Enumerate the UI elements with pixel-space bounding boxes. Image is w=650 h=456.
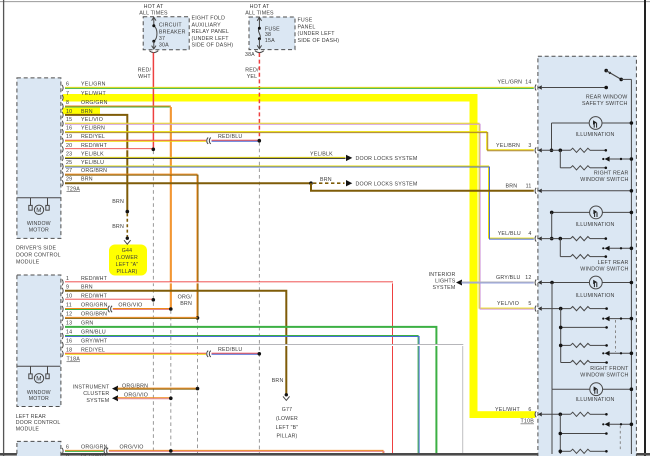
svg-text:9: 9 xyxy=(66,284,69,290)
left rear window switch xyxy=(542,237,633,259)
driver's side door control module box xyxy=(17,78,61,239)
svg-text:GRY/WHT: GRY/WHT xyxy=(81,339,108,345)
wire pin16 YEL/BRN to switch pin3 xyxy=(65,132,534,151)
svg-text:DOOR CONTROL: DOOR CONTROL xyxy=(16,252,61,258)
text: rear window safety switch xyxy=(582,95,627,108)
svg-text:BRN: BRN xyxy=(180,301,192,307)
text: RED/WHT feed label xyxy=(138,68,152,80)
svg-text:(UNDER LEFT: (UNDER LEFT xyxy=(298,31,336,37)
svg-text:RED/BLU: RED/BLU xyxy=(218,347,242,353)
text: instrument cluster system xyxy=(73,384,110,403)
svg-text:30A: 30A xyxy=(159,43,169,49)
svg-text:LEFT "B": LEFT "B" xyxy=(276,425,299,431)
text: fuse panel xyxy=(298,18,340,44)
lower module wire pin14 GRN/BLU loop down xyxy=(65,336,419,454)
window switch assembly box xyxy=(538,56,637,456)
illumination lamp 3 xyxy=(589,276,602,289)
BRN wire junction dots on G44 drop xyxy=(126,210,130,214)
svg-text:YEL/VIO: YEL/VIO xyxy=(497,301,519,307)
svg-text:YEL/VIO: YEL/VIO xyxy=(81,117,103,123)
svg-text:10: 10 xyxy=(66,109,72,115)
wire ORG/BRN to instrument cluster system xyxy=(112,386,199,392)
text: T18A connector xyxy=(67,357,81,363)
svg-text:BRN: BRN xyxy=(112,224,124,230)
svg-text:ORG/VIO: ORG/VIO xyxy=(120,444,144,450)
svg-text:YEL/BLK: YEL/BLK xyxy=(310,152,333,158)
splice third module pin6 xyxy=(104,448,108,454)
svg-text:5: 5 xyxy=(528,301,531,307)
rear window safety switch xyxy=(542,69,632,90)
wire GRY/BLU to interior lights system xyxy=(456,280,534,286)
svg-text:BRN: BRN xyxy=(272,378,284,384)
svg-text:11: 11 xyxy=(66,303,72,309)
wire pin20 RED/WHT to bus xyxy=(65,148,155,152)
svg-text:DRIVER'S SIDE: DRIVER'S SIDE xyxy=(16,246,57,252)
text: window motor (upper) xyxy=(27,221,51,233)
text: hot at all times (fuse) xyxy=(245,4,274,17)
svg-text:ILLUMINATION: ILLUMINATION xyxy=(575,397,614,403)
text: interior lights system xyxy=(429,272,456,291)
svg-text:RED/YEL: RED/YEL xyxy=(81,134,105,140)
switch pin 12 illumination feed row xyxy=(542,281,633,285)
text: BRN label G77 xyxy=(272,378,284,384)
svg-text:38A: 38A xyxy=(245,52,255,58)
svg-text:GRY/BLU: GRY/BLU xyxy=(496,275,521,281)
svg-text:INTERIOR: INTERIOR xyxy=(429,272,456,278)
text: RED/BLU label (lower) xyxy=(218,347,242,353)
text: RED/YEL feed label xyxy=(245,68,259,80)
svg-text:20: 20 xyxy=(66,143,72,149)
svg-text:SYSTEM: SYSTEM xyxy=(433,285,456,291)
svg-text:EIGHT FOLD: EIGHT FOLD xyxy=(192,16,226,22)
wire RED/YEL feed from fuse (dashed) xyxy=(258,53,260,140)
wire ORG/VIO to instrument cluster system xyxy=(112,395,173,401)
svg-text:G77: G77 xyxy=(282,407,292,413)
text: ORG/VIO label (third module) xyxy=(120,444,144,450)
gray dashed bus at x=153 (RED/WHT run) xyxy=(152,151,154,454)
third module wire pin6 ORG/GRN to splice xyxy=(65,450,103,451)
svg-text:YEL/BLK: YEL/BLK xyxy=(81,151,104,157)
svg-text:RIGHT FRONT: RIGHT FRONT xyxy=(590,366,629,372)
svg-text:ORG/GRN: ORG/GRN xyxy=(81,100,108,106)
svg-text:MODULE: MODULE xyxy=(16,259,40,265)
wire RED/BLU to RED/YEL bus (lower) xyxy=(212,352,262,356)
left front window switch (pin 6, clipped at bottom) xyxy=(542,412,633,454)
window motor (driver's side) xyxy=(17,198,60,215)
svg-text:MODULE: MODULE xyxy=(16,426,40,432)
text: T10B connector xyxy=(521,419,535,425)
svg-text:RED/: RED/ xyxy=(245,68,259,74)
ground G44 xyxy=(124,237,131,245)
svg-text:ILLUMINATION: ILLUMINATION xyxy=(575,293,614,299)
svg-text:WINDOW SWITCH: WINDOW SWITCH xyxy=(580,177,628,183)
svg-text:GRN/BLU: GRN/BLU xyxy=(81,330,106,336)
svg-text:FUSE: FUSE xyxy=(298,18,313,24)
text: illumination 2 xyxy=(575,222,614,228)
svg-text:12: 12 xyxy=(66,311,72,317)
left rear door control module box xyxy=(17,275,61,407)
svg-text:BRN: BRN xyxy=(112,199,124,205)
svg-text:MOTOR: MOTOR xyxy=(29,396,49,402)
svg-text:8: 8 xyxy=(66,100,69,106)
wire ORG/VIO bottom run xyxy=(109,449,384,453)
text: fuse 38 15A xyxy=(265,26,280,43)
circuit breaker 37 symbol xyxy=(149,17,158,52)
svg-text:ORG/BRN: ORG/BRN xyxy=(81,311,107,317)
svg-text:LIGHTS: LIGHTS xyxy=(435,279,456,285)
text: switch pin 11 label xyxy=(506,183,532,189)
svg-text:SAFETY SWITCH: SAFETY SWITCH xyxy=(582,101,627,107)
svg-text:ORG/VIO: ORG/VIO xyxy=(124,393,148,399)
svg-text:ILLUMINATION: ILLUMINATION xyxy=(575,132,614,138)
svg-text:SIDE OF DASH): SIDE OF DASH) xyxy=(192,43,234,49)
svg-text:BRN: BRN xyxy=(81,284,93,290)
svg-text:YEL/BRN: YEL/BRN xyxy=(81,126,105,132)
wire pin29 BRN to switch pin11 and door locks xyxy=(65,180,534,191)
highlight: G44 label marker xyxy=(109,245,147,276)
gray dashed bus at x=259 (RED/YEL run) xyxy=(258,142,260,453)
svg-text:M: M xyxy=(36,207,41,214)
svg-text:INSTRUMENT: INSTRUMENT xyxy=(73,384,110,390)
text: BRN + door locks system xyxy=(320,177,417,187)
wire RED/WHT feed from circuit breaker xyxy=(152,53,154,149)
svg-text:HOT AT: HOT AT xyxy=(144,4,164,10)
svg-text:LEFT "A": LEFT "A" xyxy=(116,262,139,268)
highlight: YEL/WHT circuit marker xyxy=(63,94,535,418)
svg-text:6: 6 xyxy=(66,81,69,87)
text: ORG/VIO instrument label xyxy=(124,393,148,399)
svg-text:3: 3 xyxy=(528,143,531,149)
svg-text:1: 1 xyxy=(66,276,69,282)
svg-text:ALL TIMES: ALL TIMES xyxy=(245,10,274,16)
splice pin18 xyxy=(207,351,211,357)
svg-text:DOOR CONTROL: DOOR CONTROL xyxy=(16,420,61,426)
svg-text:CIRCUIT: CIRCUIT xyxy=(159,23,182,29)
svg-text:6: 6 xyxy=(66,444,69,450)
fuse 38 symbol xyxy=(255,17,264,52)
splice pin11 xyxy=(108,306,112,312)
svg-text:27: 27 xyxy=(66,168,72,174)
svg-text:ORG/BRN: ORG/BRN xyxy=(81,168,107,174)
svg-text:REAR WINDOW: REAR WINDOW xyxy=(586,95,628,101)
svg-text:ALL TIMES: ALL TIMES xyxy=(139,10,168,16)
text: ORG/VIO label (row 11) xyxy=(118,303,142,309)
svg-text:WINDOW SWITCH: WINDOW SWITCH xyxy=(580,373,628,379)
svg-text:PANEL: PANEL xyxy=(298,24,316,30)
wire pin6 YEL/GRN to switch pin14 xyxy=(65,87,534,88)
wire RED/BLU to RED/YEL bus (upper) xyxy=(212,139,262,143)
switch pin 11 ground row xyxy=(542,189,633,193)
lower module wire pin11 ORG/GRN to splice xyxy=(65,309,107,310)
svg-text:RIGHT REAR: RIGHT REAR xyxy=(594,171,629,177)
svg-text:PILLAR): PILLAR) xyxy=(116,269,137,275)
svg-text:BRN: BRN xyxy=(320,177,332,183)
svg-text:(LOWER: (LOWER xyxy=(116,255,138,261)
svg-text:WHT: WHT xyxy=(138,74,151,80)
text: 38A xyxy=(245,52,255,58)
text: right rear window switch xyxy=(580,171,628,184)
gray dashed bus at x=171 (ORG/VIO run) xyxy=(170,310,172,450)
text: switch pin 6 label xyxy=(495,407,532,413)
svg-text:(UNDER LEFT: (UNDER LEFT xyxy=(192,36,230,42)
text: circuit breaker 37 30A xyxy=(159,23,186,49)
svg-text:YEL/WHT: YEL/WHT xyxy=(81,91,107,97)
svg-text:ORG/: ORG/ xyxy=(178,294,193,300)
text: lower module pin labels xyxy=(66,276,108,353)
text: third module pin label xyxy=(66,444,108,456)
svg-text:15A: 15A xyxy=(265,38,275,44)
svg-text:WINDOW: WINDOW xyxy=(27,390,51,396)
svg-text:SIDE OF DASH): SIDE OF DASH) xyxy=(298,38,340,44)
svg-text:YEL/WHT: YEL/WHT xyxy=(495,407,521,413)
text: ORG/BRN instrument label xyxy=(122,383,148,389)
svg-text:37: 37 xyxy=(159,36,165,42)
svg-text:LEFT REAR: LEFT REAR xyxy=(598,260,629,266)
svg-text:RELAY PANEL: RELAY PANEL xyxy=(192,29,230,35)
svg-text:WINDOW: WINDOW xyxy=(27,221,51,227)
svg-text:AUXILIARY: AUXILIARY xyxy=(192,22,222,28)
text: upper module pin labels xyxy=(66,81,108,182)
text: eight fold auxiliary relay panel xyxy=(192,16,234,49)
gray dashed bus at x=197.5 (ORG/BRN run) xyxy=(197,319,199,453)
circuit breaker panel box xyxy=(143,17,189,50)
text: driver's side door control module xyxy=(16,246,61,266)
svg-text:RED/WHT: RED/WHT xyxy=(81,276,108,282)
svg-text:RED/WHT: RED/WHT xyxy=(81,143,108,149)
svg-text:BRN: BRN xyxy=(506,183,518,189)
switch internal: ground bus xyxy=(630,79,632,454)
lower module wire pin10 RED/WHT to bus xyxy=(65,298,155,302)
svg-text:BREAKER: BREAKER xyxy=(159,30,186,36)
svg-text:ORG/GRN: ORG/GRN xyxy=(81,303,108,309)
svg-text:10: 10 xyxy=(66,293,72,299)
text: hot at all times (breaker) xyxy=(139,4,168,17)
wire pin27 ORG/BRN down to ORG/BRN bus xyxy=(65,174,199,320)
illumination lamp 4 xyxy=(552,383,633,396)
svg-text:YEL/GRN: YEL/GRN xyxy=(81,81,106,87)
svg-text:YEL/BLU: YEL/BLU xyxy=(498,231,521,237)
highlight: pin 10 BRN label marker xyxy=(63,108,101,115)
text: right front window switch xyxy=(580,366,629,379)
wire pin10 BRN to ground G44 xyxy=(65,115,127,237)
text: switch pin 4 label xyxy=(498,231,532,237)
svg-text:CLUSTER: CLUSTER xyxy=(83,391,109,397)
svg-text:SYSTEM: SYSTEM xyxy=(86,398,109,404)
lower module wire pin18 RED/YEL to splice xyxy=(65,353,206,354)
lower module wire pin13 GRN loop down xyxy=(65,327,436,453)
third module box (bottom, clipped) xyxy=(17,441,61,456)
svg-text:16: 16 xyxy=(66,339,72,345)
illumination lamp 2 xyxy=(550,206,633,240)
svg-text:MOTOR: MOTOR xyxy=(29,228,49,234)
lower module wire pin12 ORG/BRN to bus xyxy=(65,317,198,318)
svg-text:T29A: T29A xyxy=(67,186,81,192)
svg-text:29: 29 xyxy=(66,177,72,183)
text: illumination 3 xyxy=(575,293,614,299)
svg-text:PILLAR): PILLAR) xyxy=(276,433,297,439)
svg-text:YEL/GRN: YEL/GRN xyxy=(498,80,523,86)
wire pin19 RED/YEL to splice xyxy=(65,140,206,141)
svg-text:G44: G44 xyxy=(122,248,132,254)
svg-text:YEL/BRN: YEL/BRN xyxy=(496,143,520,149)
svg-text:RED/YEL: RED/YEL xyxy=(81,347,105,353)
svg-text:BRN: BRN xyxy=(81,109,93,115)
text: switch pin 5 label xyxy=(497,301,532,307)
text: window motor (lower) xyxy=(27,390,51,402)
svg-text:T18A: T18A xyxy=(67,357,81,363)
svg-text:RED/: RED/ xyxy=(138,68,152,74)
text: left rear window switch xyxy=(580,260,628,273)
switch box pin terminals xyxy=(535,85,542,418)
wire pin25 YEL/BLU to switch pin4 xyxy=(65,166,534,239)
text: switch pin 12 label xyxy=(496,275,532,281)
window motor (left rear) xyxy=(17,366,60,383)
text: illumination 1 xyxy=(575,132,614,138)
text: ORG/BRN vertical label xyxy=(178,294,193,307)
svg-text:ILLUMINATION: ILLUMINATION xyxy=(575,222,614,228)
svg-text:GRN: GRN xyxy=(81,320,93,326)
svg-text:YEL: YEL xyxy=(247,74,258,80)
svg-text:ORG/BRN: ORG/BRN xyxy=(122,383,148,389)
svg-text:RED/BLU: RED/BLU xyxy=(218,134,242,140)
svg-text:14: 14 xyxy=(525,80,531,86)
svg-text:T10B: T10B xyxy=(521,419,535,425)
svg-text:ORG/GRN: ORG/GRN xyxy=(81,444,108,450)
svg-text:13: 13 xyxy=(66,320,72,326)
text: G44 ground label xyxy=(116,248,139,275)
lower module wire pin9 BRN to ground G77 xyxy=(65,291,286,394)
illumination feed drop to lamp 4 xyxy=(551,283,553,390)
text: switch pin 14 label xyxy=(498,80,532,86)
splice pin19 xyxy=(207,138,211,144)
svg-text:RED/WHT: RED/WHT xyxy=(81,293,108,299)
svg-text:7: 7 xyxy=(66,91,69,97)
lower module pin brackets xyxy=(62,279,63,356)
upper module pin brackets xyxy=(62,85,63,186)
right front window switch xyxy=(542,307,633,365)
svg-text:YEL/BLU: YEL/BLU xyxy=(81,160,104,166)
svg-text:12: 12 xyxy=(525,275,531,281)
svg-text:25: 25 xyxy=(66,160,72,166)
svg-text:23: 23 xyxy=(66,151,72,157)
svg-text:(LOWER: (LOWER xyxy=(276,416,298,422)
lower module wire pin16 GRY/WHT loop down xyxy=(65,345,464,454)
svg-text:WINDOW SWITCH: WINDOW SWITCH xyxy=(580,267,628,273)
svg-text:18: 18 xyxy=(66,347,72,353)
wire ORG/VIO to bus (row 11) xyxy=(113,307,173,311)
svg-text:11: 11 xyxy=(526,183,532,189)
right rear window switch xyxy=(542,148,633,170)
svg-text:15: 15 xyxy=(66,117,72,123)
text: switch pin 3 label xyxy=(496,143,532,149)
svg-text:6: 6 xyxy=(528,407,531,413)
illumination feed continues to bottom xyxy=(551,389,553,454)
text: RED/BLU label (upper) xyxy=(218,134,242,140)
wire pin23 YEL/BLK to door locks system xyxy=(65,155,352,161)
illumination lamp 1 xyxy=(550,117,634,153)
svg-text:4: 4 xyxy=(528,231,531,237)
text: illumination 4 xyxy=(575,397,614,403)
third module pin brackets xyxy=(62,448,63,454)
lower module wire pin1 RED/WHT loop down xyxy=(65,282,394,453)
svg-text:HOT AT: HOT AT xyxy=(250,4,270,10)
svg-text:DOOR LOCKS SYSTEM: DOOR LOCKS SYSTEM xyxy=(356,156,418,162)
text: G77 ground label xyxy=(276,407,299,439)
text: YEL/BLK + door locks system xyxy=(310,152,417,163)
wire pin15 YEL/VIO to switch pin5 xyxy=(65,123,534,309)
svg-text:19: 19 xyxy=(66,134,72,140)
svg-text:16: 16 xyxy=(66,126,72,132)
text: left rear door control module xyxy=(16,414,61,432)
svg-text:DOOR LOCKS SYSTEM: DOOR LOCKS SYSTEM xyxy=(356,182,418,188)
svg-text:BRN: BRN xyxy=(81,177,93,183)
text: T29A connector xyxy=(67,186,81,192)
ground G77 xyxy=(283,393,290,400)
wire pin8 ORG/GRN down to ORG/VIO bus xyxy=(65,106,171,309)
text: BRN labels on G44 drop xyxy=(112,199,124,230)
fuse panel box xyxy=(249,17,295,50)
svg-text:M: M xyxy=(36,376,41,383)
svg-text:ORG/VIO: ORG/VIO xyxy=(118,303,142,309)
svg-text:14: 14 xyxy=(66,330,72,336)
